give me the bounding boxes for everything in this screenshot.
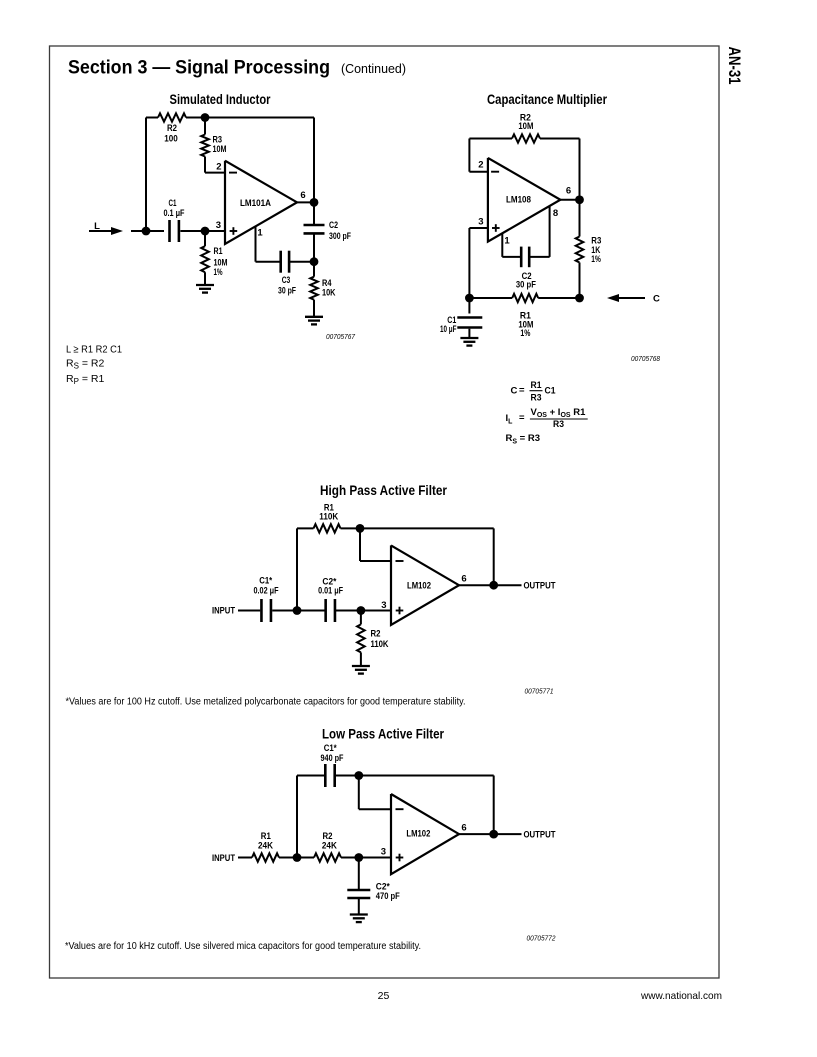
svg-text:24K: 24K xyxy=(322,841,337,852)
svg-text:00705772: 00705772 xyxy=(527,934,557,943)
svg-text:C: C xyxy=(511,386,518,397)
svg-text:*Values are for 100 Hz cutoff.: *Values are for 100 Hz cutoff. Use metal… xyxy=(66,697,466,708)
svg-text:2: 2 xyxy=(478,159,483,170)
svg-text:INPUT: INPUT xyxy=(212,853,235,864)
svg-text:R1: R1 xyxy=(531,380,543,391)
svg-text:00705771: 00705771 xyxy=(525,686,554,695)
svg-text:R3: R3 xyxy=(553,419,564,430)
svg-text:3: 3 xyxy=(478,217,483,228)
svg-text:C: C xyxy=(653,294,660,305)
svg-text:C1: C1 xyxy=(545,386,557,397)
svg-text:6: 6 xyxy=(566,186,571,197)
svg-text:Section 3 — Signal Processing: Section 3 — Signal Processing xyxy=(68,57,330,79)
svg-text:300 pF: 300 pF xyxy=(329,231,351,242)
svg-text:LM108: LM108 xyxy=(506,195,531,206)
svg-text:C3: C3 xyxy=(282,275,291,286)
svg-text:1: 1 xyxy=(504,236,510,247)
svg-text:100: 100 xyxy=(164,134,178,145)
svg-text:(Continued): (Continued) xyxy=(341,62,406,76)
svg-text:R3: R3 xyxy=(531,393,542,404)
svg-text:0.1 μF: 0.1 μF xyxy=(164,208,185,219)
svg-text:8: 8 xyxy=(553,208,558,219)
svg-text:www.national.com: www.national.com xyxy=(640,990,722,1002)
svg-text:3: 3 xyxy=(381,847,386,858)
svg-text:OUTPUT: OUTPUT xyxy=(524,830,556,841)
svg-text:RS = R2: RS = R2 xyxy=(66,357,104,370)
svg-text:RP = R1: RP = R1 xyxy=(66,373,104,386)
svg-text:6: 6 xyxy=(461,574,466,585)
svg-text:10K: 10K xyxy=(322,288,336,299)
svg-text:LM102: LM102 xyxy=(406,829,430,840)
svg-text:INPUT: INPUT xyxy=(212,606,235,617)
svg-text:LM102: LM102 xyxy=(407,581,431,592)
svg-text:25: 25 xyxy=(378,990,390,1002)
svg-text:Low Pass Active Filter: Low Pass Active Filter xyxy=(322,726,444,742)
svg-text:6: 6 xyxy=(461,823,466,834)
svg-text:1%: 1% xyxy=(591,254,601,265)
svg-text:AN-31: AN-31 xyxy=(725,47,743,85)
svg-text:OUTPUT: OUTPUT xyxy=(524,581,556,592)
svg-text:10 μF: 10 μF xyxy=(440,324,457,335)
svg-text:110K: 110K xyxy=(371,639,389,650)
svg-text:RS = R3: RS = R3 xyxy=(506,433,541,446)
svg-text:=: = xyxy=(519,385,525,396)
svg-text:R2: R2 xyxy=(167,123,177,134)
svg-text:0.01 μF: 0.01 μF xyxy=(318,586,343,597)
svg-text:470 pF: 470 pF xyxy=(376,891,400,902)
svg-text:1%: 1% xyxy=(520,328,530,339)
svg-text:2: 2 xyxy=(216,162,221,173)
svg-text:Simulated Inductor: Simulated Inductor xyxy=(170,91,271,107)
svg-text:C2: C2 xyxy=(329,220,338,231)
svg-text:24K: 24K xyxy=(258,841,273,852)
svg-text:=: = xyxy=(519,413,525,424)
svg-text:1: 1 xyxy=(257,228,263,239)
svg-text:00705768: 00705768 xyxy=(631,354,661,363)
svg-text:10M: 10M xyxy=(213,144,227,155)
svg-text:940 pF: 940 pF xyxy=(321,753,344,764)
svg-text:10M: 10M xyxy=(518,121,533,132)
svg-text:High Pass Active Filter: High Pass Active Filter xyxy=(320,482,447,498)
svg-text:30 pF: 30 pF xyxy=(278,286,296,297)
svg-text:1%: 1% xyxy=(214,267,223,278)
svg-text:30 pF: 30 pF xyxy=(516,280,536,291)
svg-text:110K: 110K xyxy=(319,512,338,523)
svg-text:3: 3 xyxy=(381,600,386,611)
svg-text:LM101A: LM101A xyxy=(240,198,271,209)
svg-text:Capacitance Multiplier: Capacitance Multiplier xyxy=(487,91,607,107)
svg-text:3: 3 xyxy=(216,220,221,231)
svg-text:*Values are for 10 kHz cutoff.: *Values are for 10 kHz cutoff. Use silve… xyxy=(65,941,421,952)
svg-text:L ≥ R1 R2 C1: L ≥ R1 R2 C1 xyxy=(66,343,122,355)
svg-text:R1: R1 xyxy=(214,246,224,257)
svg-text:6: 6 xyxy=(300,190,305,201)
svg-text:0.02 μF: 0.02 μF xyxy=(254,586,279,597)
svg-text:00705767: 00705767 xyxy=(326,332,356,341)
